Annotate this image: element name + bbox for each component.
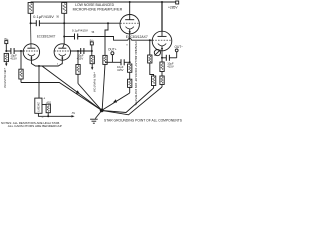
wire V1b cathode to tail [39,60,62,66]
node star ground point [100,109,104,113]
terminal OUT+ [108,47,117,62]
capacitor C1 0.1uF/415V anode-anode [31,15,55,26]
svg-text:ALL CAPACITORS ARE BENDERCAP: ALL CAPACITORS ARE BENDERCAP [8,124,62,128]
svg-text:4: 4 [57,63,59,65]
svg-text:+285V: +285V [168,5,178,9]
current source U1 LM334Z [35,96,46,119]
capacitor C6 10uF OUT- [162,55,177,69]
capacitor C5 10uF OUT+ [105,59,130,72]
node junction V3 cathode out [161,57,163,59]
svg-text:8: 8 [126,45,128,47]
wire V2 cathode [129,34,131,63]
wire rail to V3 anode [161,2,163,31]
wire R10 to star ground (diagonal) [102,88,154,113]
resistor R5 phantom feed - [90,51,94,70]
capacitor C4 10uF input - [77,48,84,61]
triode V1b ECC83 half [37,35,71,66]
node junction rail V2 [129,1,131,3]
notes text [1,121,62,128]
node junction grid-right leak [77,50,79,52]
wire V3 cathode [161,51,163,62]
resistor R10 (bias return) [151,76,155,88]
wire U1 bottom rail [38,113,71,116]
resistor R4 (V1a grid leak) [19,51,23,83]
wire V1a cathode to tail [31,60,39,66]
resistor R9 (V3 grid leak) [148,40,154,76]
svg-text:OUT+: OUT+ [108,47,117,51]
svg-text:415V: 415V [117,68,124,72]
trimmer arrow on V3 cathode [154,49,160,55]
triode V3 ECC83/12AX7 [152,31,172,51]
svg-text:-5V: -5V [71,112,75,115]
terminal IN- [90,38,95,51]
node junction IN- [91,50,93,52]
svg-text:IN+: IN+ [4,37,9,41]
title text [73,3,123,12]
svg-text:ECC83/12AX7: ECC83/12AX7 [126,35,148,39]
resistor R2 (plate load V1b) [56,3,66,24]
resistor R7 (V2 grid leak) [102,55,107,109]
wire V1b grid right side [71,50,92,52]
terminal IN+ [4,37,9,51]
node junction anode coupling branch [63,36,65,38]
svg-text:56: 56 [56,16,59,19]
resistor R11 (V3 cathode upper) [160,62,164,76]
svg-text:+48V PHANTOM: +48V PHANTOM [3,68,7,88]
triode V2 ECC83/12AX7 [120,15,148,39]
node junction tail / current source [38,65,40,67]
resistor R8a (V2 cathode upper) [128,64,132,79]
wire R12 to star ground (diagonal) [102,87,162,115]
wire rail to V2 anode [129,2,131,15]
svg-text:LOW NOISE BALANCED: LOW NOISE BALANCED [75,3,114,7]
wire hop over V2 cathode [128,38,132,40]
resistor R6 (V1b grid leak) [76,51,80,84]
svg-text:0.1µF/415V: 0.1µF/415V [72,29,89,33]
svg-text:ECC83/12AX7: ECC83/12AX7 [37,35,56,39]
svg-text:415V: 415V [167,65,174,69]
wire V1b anode node to V2 grid [64,22,120,24]
node junction V1a anode [30,22,32,24]
capacitor C3 10uF input + [6,48,23,61]
svg-text:+: + [43,96,45,100]
resistor R3 phantom feed + [4,53,8,66]
wire V1b anode lead [63,23,65,44]
node junction V2 grid leak [107,22,109,24]
node junction rail V3 [161,1,163,3]
svg-text:OUT−: OUT− [175,45,184,49]
resistor R1 (plate load V1a) [28,3,33,24]
wire R4 to star ground [21,83,102,111]
svg-text:STAR GROUNDING POINT OF ALL CO: STAR GROUNDING POINT OF ALL COMPONENTS [104,118,182,122]
node junction V2 cathode out [129,61,131,63]
svg-text:MICROPHONE PREAMPLIFIER: MICROPHONE PREAMPLIFIER [73,7,123,11]
wire C1 to V1b anode node [39,22,64,24]
triode V1a ECC83 half [23,23,39,60]
node junction V1b anode [63,22,65,24]
svg-text:ADJ: ADJ [46,101,51,104]
svg-text:IN−: IN− [90,38,95,42]
wire tail node to star ground (diagonal) [42,66,102,110]
ground symbol [90,111,101,123]
node junction V3 grid leak [149,39,151,41]
svg-text:POWER-DELAY CIRCUIT ON OUTPUTS: POWER-DELAY CIRCUIT ON OUTPUTS [134,42,138,106]
resistor R13 set resistor [42,101,52,116]
svg-text:415V: 415V [10,57,17,61]
wire R6 to star ground (diagonal) [78,84,102,111]
terminal +285V [168,1,179,9]
svg-text:0.1µF/415V: 0.1µF/415V [33,15,55,19]
svg-text:LM334Z: LM334Z [36,102,40,112]
capacitor C2 0.1uF coupling to V3 grid [64,29,89,40]
node junction IN+ phantom [5,50,7,52]
svg-text:56: 56 [92,31,95,34]
resistor R12 (V3 cathode lower) [160,76,164,87]
wire coupling cap to V3 grid with jog [78,37,153,41]
wire V2 grid-leak drop [105,23,108,55]
wire R8b to star ground (diagonal) [102,93,130,110]
resistor R8b (V2 cathode lower) [128,79,132,93]
terminal OUT- [175,45,184,58]
wire B+ top rail [31,1,176,3]
node junction V1a grid leak [20,50,22,52]
svg-text:+48V PHANTOM: +48V PHANTOM [92,72,96,92]
